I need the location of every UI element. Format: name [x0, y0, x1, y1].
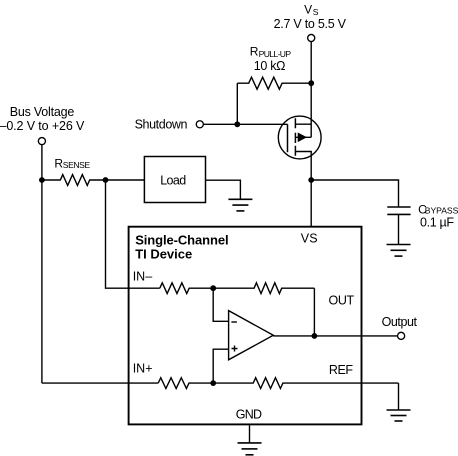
wire IN+ row from bus to resistor [42, 382, 158, 384]
svg-text:10 kΩ: 10 kΩ [254, 59, 286, 73]
junction gate / pull-up [234, 121, 240, 127]
junction output / feedback [312, 333, 318, 339]
svg-text:REF: REF [329, 363, 353, 377]
wire GND pin [249, 426, 251, 443]
terminal Shutdown [196, 121, 203, 128]
svg-text:PULL-UP: PULL-UP [259, 49, 292, 59]
svg-text:GND: GND [236, 408, 262, 422]
wire noninverting input [213, 349, 228, 383]
net label VS [304, 2, 319, 16]
load block [144, 157, 205, 203]
svg-text:TI Device: TI Device [135, 247, 192, 262]
svg-text:Single-Channel: Single-Channel [135, 233, 228, 248]
svg-text:0.1 µF: 0.1 µF [420, 215, 454, 229]
wire op-amp output to Output terminal [273, 335, 397, 337]
svg-text:BYPASS: BYPASS [425, 206, 458, 216]
svg-text:Bus Voltage: Bus Voltage [10, 105, 75, 119]
svg-text:Shutdown: Shutdown [135, 118, 188, 132]
wire feedback down to output node [313, 288, 315, 336]
ground at REF [387, 410, 411, 421]
terminal VS supply [308, 34, 315, 41]
svg-text:S: S [313, 7, 319, 17]
svg-text:SENSE: SENSE [63, 160, 91, 170]
svg-text:Output: Output [382, 315, 418, 329]
resistor REF [213, 378, 398, 389]
svg-text:R: R [250, 45, 259, 59]
op-amp A1 [229, 311, 274, 360]
label RSENSE [54, 157, 90, 171]
resistor RSENSE [42, 175, 106, 186]
resistor RPULL-UP [237, 77, 311, 89]
transistor Q1 PMOS pass FET [278, 116, 321, 180]
wire Shutdown to gate [204, 123, 288, 125]
device box U1 Single-Channel TI Device [129, 227, 362, 425]
svg-text:2.7 V to 5.5 V: 2.7 V to 5.5 V [274, 17, 347, 31]
svg-text:IN+: IN+ [133, 362, 153, 376]
junction IN+ node [210, 380, 216, 386]
junction bus / RSENSE left [39, 177, 45, 183]
svg-text:V: V [304, 2, 312, 16]
label CBYPASS [418, 202, 458, 216]
junction VS / RPULL-UP [308, 80, 314, 86]
wire inverting input [213, 288, 228, 321]
resistor input IN- [160, 283, 213, 294]
junction source node / bypass [308, 177, 314, 183]
svg-text:IN–: IN– [133, 270, 153, 284]
capacitor CBYPASS [387, 207, 410, 245]
wire RSENSE to load [106, 179, 145, 181]
ground at load [228, 199, 252, 211]
label Single-Channel TI Device [135, 233, 228, 262]
ground at GND [238, 443, 262, 455]
terminal Output [398, 332, 405, 339]
junction IN- node [210, 285, 216, 291]
wire bus terminal down to IN+ row [41, 145, 43, 383]
wire RSENSE right junction down to IN- row [106, 180, 160, 288]
terminal Bus Voltage [38, 138, 45, 145]
resistor feedback [213, 283, 314, 294]
wire source node to CBYPASS [311, 180, 398, 207]
resistor input IN+ [158, 378, 213, 389]
junction RSENSE right / load [103, 177, 109, 183]
svg-text:Load: Load [160, 174, 186, 188]
svg-text:VS: VS [301, 231, 318, 245]
svg-text:OUT: OUT [329, 294, 355, 308]
wire source node to VS pin of device [310, 180, 312, 226]
wire REF to ground [398, 383, 400, 410]
ground at CBYPASS [387, 245, 411, 257]
wire VS vertical from terminal to MOSFET drain [310, 42, 312, 137]
label RPULL-UP [250, 45, 292, 59]
wire load to ground [206, 180, 241, 199]
wire RPULL-UP left lead down to gate node [236, 83, 238, 124]
svg-text:–0.2 V to +26 V: –0.2 V to +26 V [0, 119, 85, 133]
